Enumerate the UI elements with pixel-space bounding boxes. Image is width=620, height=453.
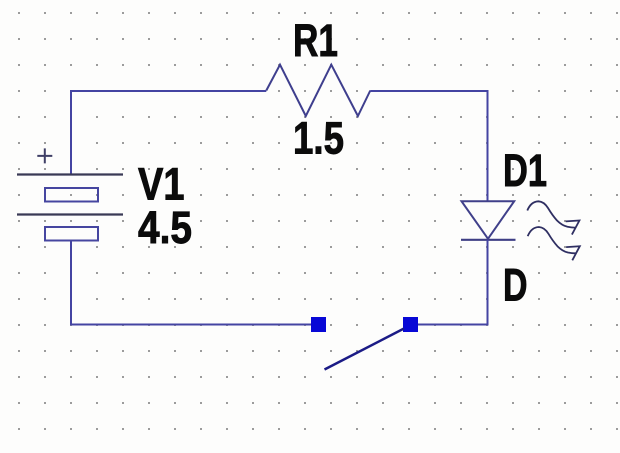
battery positive sign +	[37, 148, 52, 163]
LED D1 (diode triangle and cathode bar)	[461, 201, 516, 240]
battery cell box (upper)	[45, 188, 98, 202]
battery cell box (lower)	[45, 227, 98, 241]
battery plate line (top)	[17, 173, 123, 175]
battery V1 (two-cell symbol)	[17, 175, 123, 241]
wire: switch to battery negative (bottom-left rail)	[71, 240, 311, 325]
switch right terminal node (blue square)	[403, 317, 418, 332]
LED light emission arrow 1	[527, 201, 579, 234]
wire: resistor R1 to LED D1 (top-right rail)	[370, 91, 487, 202]
svg-text:D1: D1	[503, 145, 547, 196]
battery plate line (bottom)	[17, 213, 123, 215]
resistor R1 (zigzag)	[266, 65, 370, 116]
switch (open SPST)	[311, 317, 418, 370]
switch left terminal node (blue square)	[311, 317, 326, 332]
svg-text:D: D	[503, 260, 528, 311]
svg-text:R1: R1	[293, 15, 338, 66]
LED light emission arrow 2	[528, 227, 580, 260]
wire: battery positive terminal up and across to resistor R1 (top-left rail)	[71, 91, 266, 174]
switch lever (open)	[325, 329, 405, 370]
svg-text:1.5: 1.5	[293, 113, 344, 164]
wire: LED D1 cathode down to switch (right-bottom rail)	[418, 240, 488, 325]
svg-text:4.5: 4.5	[138, 202, 192, 253]
